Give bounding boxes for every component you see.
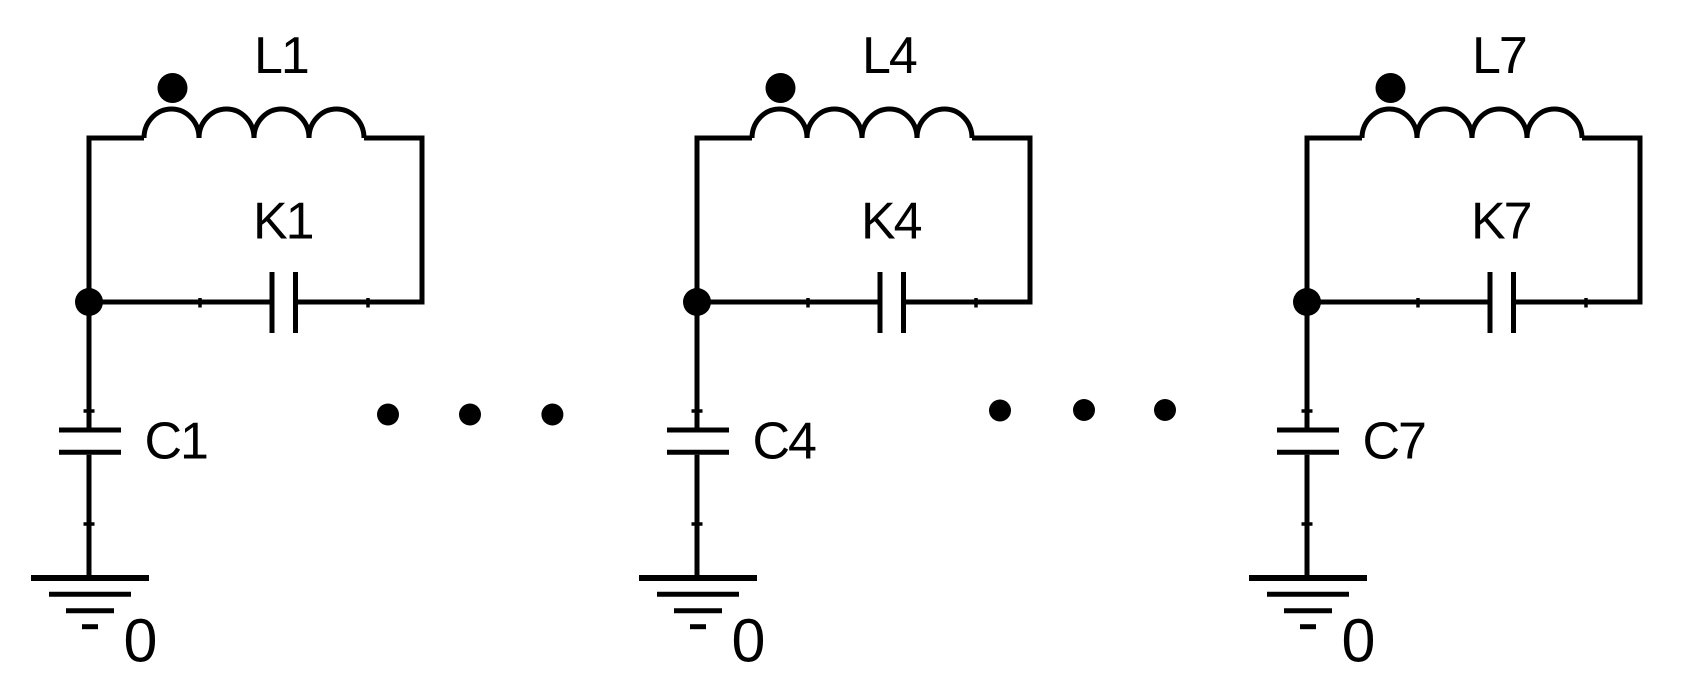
pin tick on bottom wire left of K1 <box>198 298 202 308</box>
pin tick on bottom wire right of K1 <box>366 298 370 308</box>
pin tick below C1 <box>84 522 95 526</box>
pin tick above C4 <box>692 409 703 413</box>
svg-text:0: 0 <box>732 606 764 674</box>
node: junction dot of tank 7 <box>1293 288 1321 316</box>
wire: bottom horizontal left segment of tank 4 <box>697 300 878 305</box>
svg-text:C1: C1 <box>145 413 208 471</box>
wire: top-right horizontal from L7 <box>1582 136 1643 141</box>
wire: bottom horizontal right segment of tank 7 <box>1516 300 1640 305</box>
wire: bottom horizontal right segment of tank 1 <box>298 300 422 305</box>
capacitor K1 <box>272 272 296 333</box>
svg-text:L1: L1 <box>254 27 308 85</box>
inductor L7 <box>1362 109 1582 138</box>
svg-text:K4: K4 <box>861 193 922 251</box>
pin tick on bottom wire left of K4 <box>806 298 810 308</box>
pin tick on bottom wire left of K7 <box>1416 298 1420 308</box>
ellipsis dots between tank 4 and tank 7 <box>989 399 1176 422</box>
capacitor C4 <box>667 430 729 452</box>
wire: top-left horizontal to L4 <box>695 136 753 141</box>
pin tick above C7 <box>1302 409 1313 413</box>
wire: right vertical of tank 7 <box>1638 138 1643 305</box>
wire: bottom horizontal right segment of tank 4 <box>906 300 1030 305</box>
wire: left vertical of tank 4 <box>695 138 700 308</box>
wire: C4 down to ground <box>695 455 700 578</box>
svg-text:L4: L4 <box>862 27 917 85</box>
wire: top-right horizontal from L1 <box>364 136 425 141</box>
node: junction dot of tank 1 <box>75 288 103 316</box>
wire: top-left horizontal to L1 <box>87 136 145 141</box>
capacitor C1 <box>59 430 121 452</box>
node: junction dot of tank 4 <box>683 288 711 316</box>
capacitor K7 <box>1490 272 1514 333</box>
capacitor C7 <box>1277 430 1339 452</box>
wire: left vertical of tank 1 <box>87 138 92 308</box>
svg-text:C4: C4 <box>753 413 817 471</box>
ellipsis dots between tank 1 and tank 4 <box>377 404 563 426</box>
ground symbol of tank 7 <box>1249 575 1367 581</box>
wire: right vertical of tank 4 <box>1028 138 1033 305</box>
ground symbol of tank 4 <box>639 575 757 581</box>
svg-text:L7: L7 <box>1472 27 1526 85</box>
pin tick below C4 <box>692 522 703 526</box>
phase dot of L4 <box>766 73 796 103</box>
wire: C7 down to ground <box>1305 455 1310 578</box>
svg-text:0: 0 <box>1342 606 1374 674</box>
svg-text:K7: K7 <box>1471 193 1531 251</box>
wire: junction down to C1 <box>87 302 92 428</box>
svg-text:C7: C7 <box>1363 413 1426 471</box>
ground symbol of tank 1 <box>31 575 149 581</box>
wire: C1 down to ground <box>87 455 92 578</box>
wire: right vertical of tank 1 <box>420 138 425 305</box>
pin tick on bottom wire right of K4 <box>974 298 978 308</box>
phase dot of L1 <box>158 73 188 103</box>
svg-text:0: 0 <box>124 606 156 674</box>
pin tick above C1 <box>84 409 95 413</box>
svg-text:K1: K1 <box>253 193 313 251</box>
wire: bottom horizontal left segment of tank 1 <box>89 300 270 305</box>
wire: junction down to C7 <box>1305 302 1310 428</box>
pin tick on bottom wire right of K7 <box>1584 298 1588 308</box>
capacitor K4 <box>880 272 904 333</box>
inductor L4 <box>752 109 972 138</box>
pin tick below C7 <box>1302 522 1313 526</box>
wire: left vertical of tank 7 <box>1305 138 1310 308</box>
wire: bottom horizontal left segment of tank 7 <box>1307 300 1488 305</box>
wire: top-left horizontal to L7 <box>1305 136 1363 141</box>
wire: top-right horizontal from L4 <box>972 136 1033 141</box>
wire: junction down to C4 <box>695 302 700 428</box>
phase dot of L7 <box>1376 73 1406 103</box>
inductor L1 <box>144 109 364 138</box>
